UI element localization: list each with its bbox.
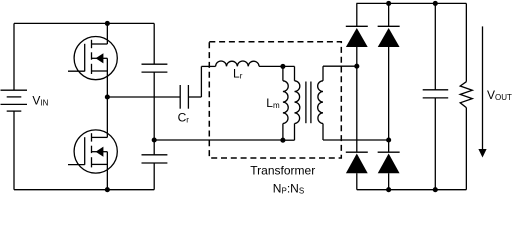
svg-text:Transformer: Transformer xyxy=(250,163,315,177)
